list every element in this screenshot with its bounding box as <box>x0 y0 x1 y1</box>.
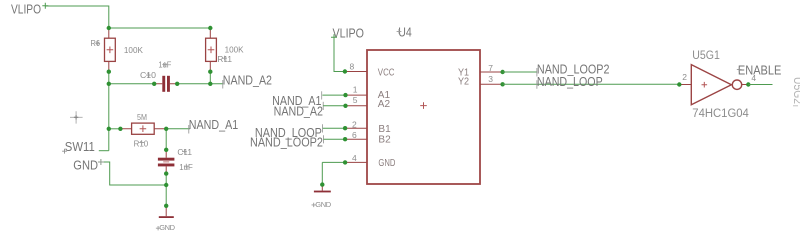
node GND left supply label <box>73 159 104 173</box>
node pin8 junction <box>343 69 347 73</box>
wire top rail from R6 to R11 <box>109 27 211 29</box>
node R10 rail junction <box>107 127 111 131</box>
svg-text:NAND_A2: NAND_A2 <box>274 105 323 119</box>
wire C11 bottom to GND symbol <box>165 174 167 206</box>
node ENABLE label <box>737 63 782 77</box>
svg-text:GND: GND <box>378 158 395 169</box>
capacitor C11 <box>158 148 193 173</box>
capacitor C10 <box>140 60 177 92</box>
node NAND_A2 wire junction <box>208 82 212 86</box>
junction dots at IC pins <box>320 69 505 187</box>
node pin6 junction <box>343 137 347 141</box>
svg-text:6: 6 <box>352 130 357 140</box>
wire VLIPO to pin 8 <box>334 37 345 71</box>
node U5G2 clipped label at right edge <box>791 77 800 106</box>
node GND wire junction <box>164 183 168 187</box>
node R11 bottom junction <box>208 70 212 74</box>
node inverter input junction <box>677 82 681 86</box>
node GND2 pin junction <box>320 182 324 186</box>
wire junction down to C11 <box>165 129 167 150</box>
node pin3 junction <box>500 82 504 86</box>
svg-text:100K: 100K <box>124 46 144 55</box>
pin 8 VCC <box>345 61 395 78</box>
transistor U5G1 inverter gate <box>691 50 749 120</box>
svg-text:2: 2 <box>682 72 687 82</box>
wire C10 row right segment to NAND_A2 label <box>177 83 223 85</box>
svg-text:U5G2: U5G2 <box>791 77 800 104</box>
svg-text:5: 5 <box>353 95 358 105</box>
op-amp U4 logic IC box <box>367 26 480 184</box>
pin 1 A1 <box>346 84 391 101</box>
pin 2 B1 <box>345 120 391 135</box>
svg-text:VCC: VCC <box>378 68 395 79</box>
ground symbol GND1 (below C11) <box>156 206 176 232</box>
wire NAND_LOOP2 to pin 6 <box>324 138 346 140</box>
svg-text:NAND_A2: NAND_A2 <box>223 73 272 87</box>
node C10 right pin junction <box>175 82 179 86</box>
svg-text:NAND_LOOP: NAND_LOOP <box>537 75 603 89</box>
wire pin 3 long run to inverter input <box>503 83 680 85</box>
node C11 top pin junction <box>164 148 168 152</box>
wire pin 7 to NAND_LOOP2 label <box>503 71 537 73</box>
svg-text:100K: 100K <box>225 45 245 54</box>
node NAND_LOOP label at IC <box>255 124 323 140</box>
resistor R6 <box>91 28 144 72</box>
svg-text:GND: GND <box>315 200 331 209</box>
wire NAND_LOOP to pin 2 <box>323 127 346 129</box>
node SW11 origin crosshair <box>70 111 83 123</box>
node pin5 junction <box>343 104 347 108</box>
wire C10 row left segment <box>109 83 154 85</box>
wire inverter output to ENABLE <box>748 84 772 86</box>
wire GND label to C11 net <box>100 162 167 185</box>
svg-text:U5G1: U5G1 <box>692 50 720 62</box>
wire NAND_A2 to pin 5 <box>323 105 345 107</box>
pin 2 inverter input <box>677 72 691 87</box>
wire pin 4 to ground <box>322 162 345 184</box>
node R10 right junction <box>164 127 168 131</box>
wire SW11 stub <box>99 150 109 152</box>
wire R10 right to NAND_A1 label <box>166 128 190 130</box>
node R11 top junction <box>208 26 212 30</box>
node NAND_A2 label at IC <box>274 102 324 119</box>
node C10 left pin junction <box>152 82 156 86</box>
svg-text:NAND_LOOP2: NAND_LOOP2 <box>250 135 323 149</box>
svg-text:GND: GND <box>73 159 98 173</box>
ground symbol GND2 (below IC) <box>312 185 332 209</box>
node GND symbol pin junction <box>164 204 168 208</box>
junction dots left area <box>107 26 213 208</box>
node NAND_LOOP2 right label <box>537 63 610 77</box>
svg-text:GND: GND <box>159 223 175 232</box>
svg-text:VLIPO: VLIPO <box>333 27 365 41</box>
node pin1 junction <box>343 93 347 97</box>
node pin2 junction <box>343 126 347 130</box>
node pin4 junction <box>343 160 347 164</box>
node C11 bottom pin junction <box>164 171 168 175</box>
resistor R10 <box>120 113 166 148</box>
wire NAND_A1 to pin 1 <box>322 94 345 96</box>
svg-text:A2: A2 <box>378 99 391 110</box>
node VLIPO supply label at IC <box>331 27 364 41</box>
node NAND_A1 left label <box>189 118 238 133</box>
svg-text:74HC1G04: 74HC1G04 <box>692 108 749 120</box>
node C10 row rail junction <box>107 82 111 86</box>
pin 4 inverter output <box>742 73 757 87</box>
pin 3 Y2 <box>458 74 503 87</box>
wire left rail vertical <box>108 72 110 151</box>
svg-text:Y2: Y2 <box>458 76 469 87</box>
svg-text:B2: B2 <box>378 134 391 145</box>
node NAND_A1 label at IC <box>272 91 322 108</box>
pin 5 A2 <box>346 95 391 110</box>
svg-text:VLIPO: VLIPO <box>11 3 41 17</box>
node SW11 label <box>62 140 95 154</box>
node rail top junction <box>107 26 111 30</box>
svg-text:2: 2 <box>352 120 357 130</box>
wire R10 left segment <box>109 128 121 130</box>
node pin7 junction <box>500 70 504 74</box>
svg-text:7: 7 <box>488 63 493 73</box>
svg-text:1: 1 <box>353 84 358 94</box>
node R10 left pin junction <box>118 127 122 131</box>
pin 6 B2 <box>345 130 391 145</box>
svg-text:SW11: SW11 <box>65 140 95 154</box>
pin 4 GND <box>345 153 395 169</box>
resistor R11 <box>206 28 245 72</box>
node NAND_LOOP right label <box>537 75 603 89</box>
svg-text:5M: 5M <box>137 113 147 122</box>
svg-text:3: 3 <box>488 74 493 84</box>
node R6 bottom junction <box>107 70 111 74</box>
node NAND_LOOP2 label at IC <box>250 135 324 149</box>
svg-text:4: 4 <box>352 153 357 163</box>
svg-text:U4: U4 <box>398 26 412 40</box>
svg-text:ENABLE: ENABLE <box>738 63 782 77</box>
wire VLIPO top horizontal and corner down <box>45 6 109 28</box>
node inverter output junction <box>746 82 750 86</box>
svg-text:R11: R11 <box>217 55 232 64</box>
node NAND_A2 left label <box>223 73 272 88</box>
wire R11 bottom to label row <box>209 72 211 84</box>
node VLIPO top-left supply label <box>11 3 48 17</box>
pin 7 Y1 <box>458 63 503 79</box>
svg-text:NAND_A1: NAND_A1 <box>189 118 238 132</box>
svg-text:8: 8 <box>350 61 355 71</box>
svg-text:C11: C11 <box>177 148 192 157</box>
